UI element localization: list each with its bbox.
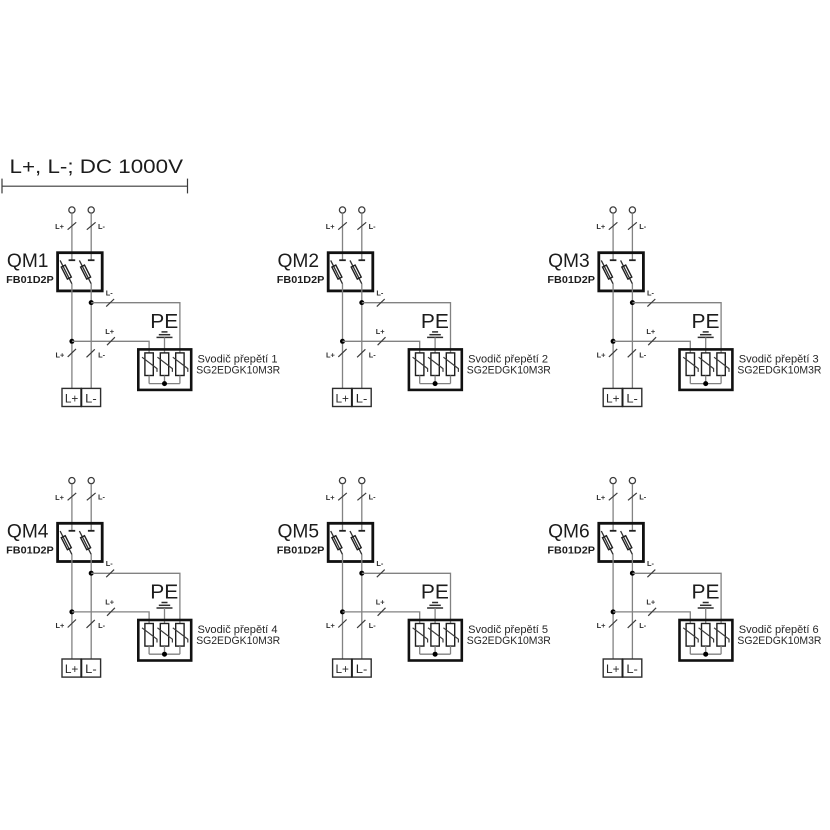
wire L+ (QM output to terminal) — [71, 284, 73, 389]
varistor SPD5.2 — [428, 624, 443, 647]
wire varistor 3 to PE bus — [179, 646, 181, 654]
svg-text:L+: L+ — [596, 493, 606, 502]
fuse-disconnector QM5 pole L+ — [331, 531, 346, 555]
disconnect slash L- branch — [647, 299, 655, 307]
disconnect slash L+ output — [68, 349, 76, 357]
wire varistor 2 to PE bus — [434, 376, 436, 384]
wire varistor 1 to PE bus — [689, 376, 691, 384]
svg-text:L+: L+ — [105, 327, 115, 336]
junction node L- branch QM3 — [630, 300, 635, 305]
terminal L+ output — [603, 388, 622, 406]
surge arrester SPD2 box (SG2EDGK10M3R) — [409, 349, 462, 390]
svg-text:L-: L- — [369, 351, 377, 360]
disconnect slash L- branch — [647, 570, 655, 578]
disconnect slash L+ branch — [648, 337, 656, 345]
wire varistor 1 to PE bus — [148, 376, 150, 384]
junction node L- branch QM2 — [359, 300, 364, 305]
terminal L- output — [623, 388, 642, 406]
varistor SPD2.3 — [443, 353, 458, 376]
wire varistor 2 to PE bus — [705, 376, 707, 384]
svg-text:L-: L- — [369, 493, 377, 502]
svg-text:L+: L+ — [55, 621, 65, 630]
wire L- (QM output to terminal) — [631, 554, 633, 659]
wire L- input — [631, 484, 633, 531]
wire L+ (QM output to terminal) — [612, 554, 614, 659]
wire L- (QM output to terminal) — [361, 554, 363, 659]
wire L- input — [361, 213, 363, 260]
wire L+ input — [612, 213, 614, 260]
wire varistor 3 to PE bus — [179, 376, 181, 384]
svg-text:L-: L- — [106, 559, 114, 568]
junction node L+ branch QM2 — [340, 339, 345, 344]
wire varistor 3 to PE bus — [720, 646, 722, 654]
svg-text:SG2EDGK10M3R: SG2EDGK10M3R — [737, 365, 821, 377]
terminal L- output — [623, 659, 642, 677]
junction node L+ branch QM6 — [611, 609, 616, 614]
svg-text:L-: L- — [98, 222, 106, 231]
wire L- branch to SPD6 — [632, 573, 721, 623]
wire L- branch to SPD3 — [632, 303, 721, 353]
svg-text:L+: L+ — [596, 222, 606, 231]
varistor SPD3.1 — [683, 353, 698, 376]
fuse-disconnector QM4 pole L+ — [60, 531, 75, 555]
disconnect slash L+ branch — [107, 608, 115, 616]
svg-text:L-: L- — [639, 493, 647, 502]
wire varistor 3 to PE bus — [450, 376, 452, 384]
wire L+ branch to SPD1 — [72, 341, 149, 353]
svg-text:L+: L+ — [335, 392, 349, 406]
disconnect slash L+ branch — [648, 608, 656, 616]
disconnect slash L+ input — [68, 222, 77, 229]
svg-text:L-: L- — [369, 222, 377, 231]
wire PE stem to SPD — [434, 608, 436, 624]
svg-text:L+: L+ — [55, 222, 65, 231]
svg-text:L+: L+ — [55, 493, 65, 502]
svg-text:L+: L+ — [55, 350, 65, 359]
svg-text:L-: L- — [369, 621, 377, 630]
ground (PE earth symbol) — [698, 332, 714, 338]
wire L+ input — [342, 213, 344, 260]
fuse-disconnector QM5 pole L- — [350, 531, 365, 555]
wire varistor 1 to PE bus — [148, 646, 150, 654]
terminal L+ output — [603, 659, 622, 677]
svg-text:L+: L+ — [65, 392, 79, 406]
fuse-disconnector QM4 pole L- — [79, 531, 94, 555]
svg-text:QM5: QM5 — [278, 522, 320, 543]
svg-text:QM6: QM6 — [548, 522, 590, 543]
breaker QM3 box (FB01D2P) — [599, 253, 644, 291]
disconnect slash L- branch — [106, 570, 114, 578]
wire L+ branch to SPD5 — [343, 612, 420, 624]
svg-text:L+: L+ — [376, 598, 386, 607]
terminal circle L+ input QM5 — [339, 478, 345, 484]
junction node L- branch QM4 — [89, 571, 94, 576]
junction node PE bus — [433, 652, 438, 657]
wire L- (QM output to terminal) — [90, 284, 92, 389]
disconnect slash L+ output — [609, 620, 617, 628]
disconnect slash L- branch — [377, 299, 385, 307]
wire L- branch to SPD5 — [362, 573, 451, 623]
wire varistor 3 to PE bus — [720, 376, 722, 384]
terminal L+ output — [62, 659, 81, 677]
svg-text:PE: PE — [421, 311, 449, 333]
terminal circle L- input QM6 — [629, 478, 635, 484]
disconnect slash L+ input — [338, 493, 347, 500]
junction node L+ branch QM4 — [69, 609, 74, 614]
svg-text:PE: PE — [692, 311, 720, 333]
wire L- (QM output to terminal) — [361, 284, 363, 389]
varistor SPD1.1 — [142, 353, 157, 376]
svg-text:PE: PE — [150, 582, 178, 604]
terminal circle L- input QM2 — [359, 207, 365, 213]
svg-text:L-: L- — [356, 392, 368, 406]
varistor SPD4.2 — [157, 624, 172, 647]
svg-text:L-: L- — [98, 493, 106, 502]
svg-text:PE: PE — [421, 582, 449, 604]
wire PE bus inside SPD — [690, 653, 721, 655]
disconnect slash L- input — [87, 493, 96, 500]
disconnect slash L+ output — [609, 349, 617, 357]
breaker QM6 box (FB01D2P) — [599, 523, 644, 561]
svg-text:FB01D2P: FB01D2P — [547, 546, 595, 557]
disconnect slash L- input — [357, 222, 366, 229]
wire L+ branch to SPD2 — [343, 341, 420, 353]
wire L+ (QM output to terminal) — [342, 284, 344, 389]
wire L- input — [361, 484, 363, 531]
wire varistor 1 to PE bus — [419, 646, 421, 654]
wire L+ branch to SPD3 — [613, 341, 690, 353]
svg-text:L+: L+ — [335, 662, 349, 676]
disconnect slash L- output — [628, 349, 636, 357]
svg-text:Svodič přepětí 6: Svodič přepětí 6 — [739, 624, 819, 636]
wire varistor 1 to PE bus — [689, 646, 691, 654]
svg-text:L+: L+ — [597, 350, 607, 359]
wire PE bus inside SPD — [149, 653, 180, 655]
wire varistor 3 to PE bus — [450, 646, 452, 654]
junction node PE bus — [433, 381, 438, 386]
varistor SPD4.1 — [142, 624, 157, 647]
junction node PE bus — [162, 652, 167, 657]
disconnect slash L+ input — [609, 222, 618, 229]
junction node L- branch QM1 — [89, 300, 94, 305]
svg-text:L+: L+ — [606, 392, 620, 406]
svg-text:L+, L-; DC 1000V: L+, L-; DC 1000V — [10, 156, 184, 178]
svg-text:SG2EDGK10M3R: SG2EDGK10M3R — [467, 635, 551, 647]
varistor SPD6.2 — [699, 624, 714, 647]
fuse-disconnector QM1 pole L- — [79, 260, 94, 284]
svg-text:Svodič přepětí 5: Svodič přepětí 5 — [468, 624, 548, 636]
disconnect slash L- output — [357, 349, 365, 357]
terminal L- output — [81, 388, 100, 406]
svg-text:L-: L- — [85, 392, 97, 406]
junction node L+ branch QM5 — [340, 609, 345, 614]
wire PE bus inside SPD — [420, 383, 451, 385]
disconnect slash L- input — [628, 493, 637, 500]
svg-text:L-: L- — [639, 351, 647, 360]
fuse-disconnector QM2 pole L- — [350, 260, 365, 284]
varistor SPD1.3 — [173, 353, 188, 376]
svg-text:Svodič přepětí 3: Svodič přepětí 3 — [739, 353, 819, 365]
fuse-disconnector QM3 pole L- — [621, 260, 636, 284]
svg-text:L-: L- — [376, 289, 384, 298]
svg-text:L+: L+ — [326, 493, 336, 502]
wire L+ (QM output to terminal) — [71, 554, 73, 659]
disconnect slash L- input — [357, 493, 366, 500]
disconnect slash L+ branch — [378, 337, 386, 345]
terminal circle L+ input QM6 — [610, 478, 616, 484]
wire varistor 2 to PE bus — [164, 646, 166, 654]
wire L- branch to SPD2 — [362, 303, 451, 353]
terminal divider — [351, 388, 353, 406]
svg-text:L+: L+ — [376, 327, 386, 336]
wire PE bus inside SPD — [420, 653, 451, 655]
wire L+ branch to SPD6 — [613, 612, 690, 624]
wire varistor 2 to PE bus — [434, 646, 436, 654]
junction node PE bus — [703, 652, 708, 657]
svg-text:L+: L+ — [105, 598, 115, 607]
junction node L+ branch QM1 — [69, 339, 74, 344]
disconnect slash L- output — [87, 620, 95, 628]
svg-text:L-: L- — [98, 621, 106, 630]
terminal circle L- input QM1 — [88, 207, 94, 213]
junction node L+ branch QM3 — [611, 339, 616, 344]
svg-text:L+: L+ — [326, 621, 336, 630]
breaker QM4 box (FB01D2P) — [58, 523, 103, 561]
terminal divider — [622, 388, 624, 406]
terminal circle L+ input QM2 — [339, 207, 345, 213]
varistor SPD3.2 — [699, 353, 714, 376]
svg-text:FB01D2P: FB01D2P — [6, 546, 54, 557]
disconnect slash L- output — [357, 620, 365, 628]
disconnect slash L- output — [628, 620, 636, 628]
disconnect slash L+ branch — [107, 337, 115, 345]
terminal L- output — [352, 388, 371, 406]
varistor SPD1.2 — [157, 353, 172, 376]
terminal divider — [80, 659, 82, 677]
svg-text:L+: L+ — [326, 350, 336, 359]
disconnect slash L- output — [87, 349, 95, 357]
ground (PE earth symbol) — [427, 603, 443, 609]
svg-text:FB01D2P: FB01D2P — [547, 275, 595, 286]
disconnect slash L+ branch — [378, 608, 386, 616]
varistor SPD5.3 — [443, 624, 458, 647]
svg-text:L-: L- — [639, 222, 647, 231]
svg-text:L-: L- — [647, 289, 655, 298]
disconnect slash L- branch — [377, 570, 385, 578]
svg-text:FB01D2P: FB01D2P — [277, 546, 325, 557]
surge arrester SPD6 box (SG2EDGK10M3R) — [680, 620, 733, 661]
svg-text:L-: L- — [647, 559, 655, 568]
svg-text:SG2EDGK10M3R: SG2EDGK10M3R — [196, 635, 280, 647]
terminal divider — [80, 388, 82, 406]
svg-text:PE: PE — [150, 311, 178, 333]
bus extent line — [2, 179, 188, 194]
svg-text:SG2EDGK10M3R: SG2EDGK10M3R — [737, 635, 821, 647]
varistor SPD2.1 — [413, 353, 428, 376]
wire PE stem to SPD — [434, 337, 436, 353]
wire L+ input — [71, 484, 73, 531]
svg-text:QM4: QM4 — [7, 522, 49, 543]
wire L- branch to SPD1 — [91, 303, 180, 353]
breaker QM5 box (FB01D2P) — [328, 523, 373, 561]
svg-text:L+: L+ — [65, 662, 79, 676]
wire varistor 2 to PE bus — [164, 376, 166, 384]
surge arrester SPD4 box (SG2EDGK10M3R) — [138, 620, 191, 661]
disconnect slash L+ input — [68, 493, 77, 500]
wire L+ (QM output to terminal) — [612, 284, 614, 389]
svg-text:L-: L- — [356, 662, 368, 676]
breaker QM1 box (FB01D2P) — [58, 253, 103, 291]
disconnect slash L- branch — [106, 299, 114, 307]
svg-text:QM3: QM3 — [548, 251, 590, 272]
svg-text:L+: L+ — [597, 621, 607, 630]
wire L- input — [90, 213, 92, 260]
svg-text:FB01D2P: FB01D2P — [277, 275, 325, 286]
junction node PE bus — [162, 381, 167, 386]
terminal circle L+ input QM4 — [69, 478, 75, 484]
ground (PE earth symbol) — [157, 603, 173, 609]
wire L- input — [631, 213, 633, 260]
disconnect slash L+ output — [338, 620, 346, 628]
ground (PE earth symbol) — [698, 603, 714, 609]
varistor SPD6.1 — [683, 624, 698, 647]
wire L- (QM output to terminal) — [90, 554, 92, 659]
wire L+ (QM output to terminal) — [342, 554, 344, 659]
terminal circle L+ input QM1 — [69, 207, 75, 213]
fuse-disconnector QM1 pole L+ — [60, 260, 75, 284]
svg-text:QM1: QM1 — [7, 251, 49, 272]
disconnect slash L+ output — [338, 349, 346, 357]
svg-text:L-: L- — [376, 559, 384, 568]
svg-text:L+: L+ — [646, 598, 656, 607]
svg-text:L-: L- — [626, 392, 638, 406]
svg-text:FB01D2P: FB01D2P — [6, 275, 54, 286]
terminal circle L- input QM5 — [359, 478, 365, 484]
terminal L+ output — [333, 388, 352, 406]
fuse-disconnector QM3 pole L+ — [601, 260, 616, 284]
wire PE bus inside SPD — [690, 383, 721, 385]
disconnect slash L- input — [87, 222, 96, 229]
terminal circle L- input QM3 — [629, 207, 635, 213]
wire PE stem to SPD — [705, 608, 707, 624]
breaker QM2 box (FB01D2P) — [328, 253, 373, 291]
surge arrester SPD5 box (SG2EDGK10M3R) — [409, 620, 462, 661]
varistor SPD3.3 — [714, 353, 729, 376]
svg-text:SG2EDGK10M3R: SG2EDGK10M3R — [467, 365, 551, 377]
surge arrester SPD3 box (SG2EDGK10M3R) — [680, 349, 733, 390]
wire PE stem to SPD — [705, 337, 707, 353]
wire PE bus inside SPD — [149, 383, 180, 385]
svg-text:Svodič přepětí 2: Svodič přepětí 2 — [468, 353, 548, 365]
wire L- branch to SPD4 — [91, 573, 180, 623]
wire L+ input — [612, 484, 614, 531]
junction node L- branch QM5 — [359, 571, 364, 576]
terminal divider — [622, 659, 624, 677]
terminal divider — [351, 659, 353, 677]
wire L- input — [90, 484, 92, 531]
wire varistor 1 to PE bus — [419, 376, 421, 384]
varistor SPD5.1 — [413, 624, 428, 647]
varistor SPD2.2 — [428, 353, 443, 376]
svg-text:L-: L- — [626, 662, 638, 676]
junction node PE bus — [703, 381, 708, 386]
terminal L+ output — [62, 388, 81, 406]
svg-text:QM2: QM2 — [278, 251, 320, 272]
surge arrester SPD1 box (SG2EDGK10M3R) — [138, 349, 191, 390]
fuse-disconnector QM6 pole L+ — [601, 531, 616, 555]
svg-text:L+: L+ — [646, 327, 656, 336]
wire L- (QM output to terminal) — [631, 284, 633, 389]
svg-text:Svodič přepětí 4: Svodič přepětí 4 — [198, 624, 278, 636]
disconnect slash L+ output — [68, 620, 76, 628]
wire L+ branch to SPD4 — [72, 612, 149, 624]
wire PE stem to SPD — [164, 337, 166, 353]
svg-text:L-: L- — [106, 289, 114, 298]
disconnect slash L+ input — [609, 493, 618, 500]
terminal circle L- input QM4 — [88, 478, 94, 484]
svg-text:Svodič přepětí 1: Svodič přepětí 1 — [198, 353, 278, 365]
svg-text:L+: L+ — [606, 662, 620, 676]
svg-text:L-: L- — [98, 351, 106, 360]
svg-text:SG2EDGK10M3R: SG2EDGK10M3R — [196, 365, 280, 377]
junction node L- branch QM6 — [630, 571, 635, 576]
terminal L- output — [81, 659, 100, 677]
wire PE stem to SPD — [164, 608, 166, 624]
disconnect slash L+ input — [338, 222, 347, 229]
varistor SPD4.3 — [173, 624, 188, 647]
svg-text:L+: L+ — [326, 222, 336, 231]
fuse-disconnector QM6 pole L- — [621, 531, 636, 555]
wire L+ input — [71, 213, 73, 260]
terminal circle L+ input QM3 — [610, 207, 616, 213]
svg-text:PE: PE — [692, 582, 720, 604]
wire L+ input — [342, 484, 344, 531]
wire varistor 2 to PE bus — [705, 646, 707, 654]
ground (PE earth symbol) — [157, 332, 173, 338]
ground (PE earth symbol) — [427, 332, 443, 338]
svg-text:L-: L- — [639, 621, 647, 630]
disconnect slash L- input — [628, 222, 637, 229]
terminal L- output — [352, 659, 371, 677]
fuse-disconnector QM2 pole L+ — [331, 260, 346, 284]
varistor SPD6.3 — [714, 624, 729, 647]
terminal L+ output — [333, 659, 352, 677]
svg-text:L-: L- — [85, 662, 97, 676]
